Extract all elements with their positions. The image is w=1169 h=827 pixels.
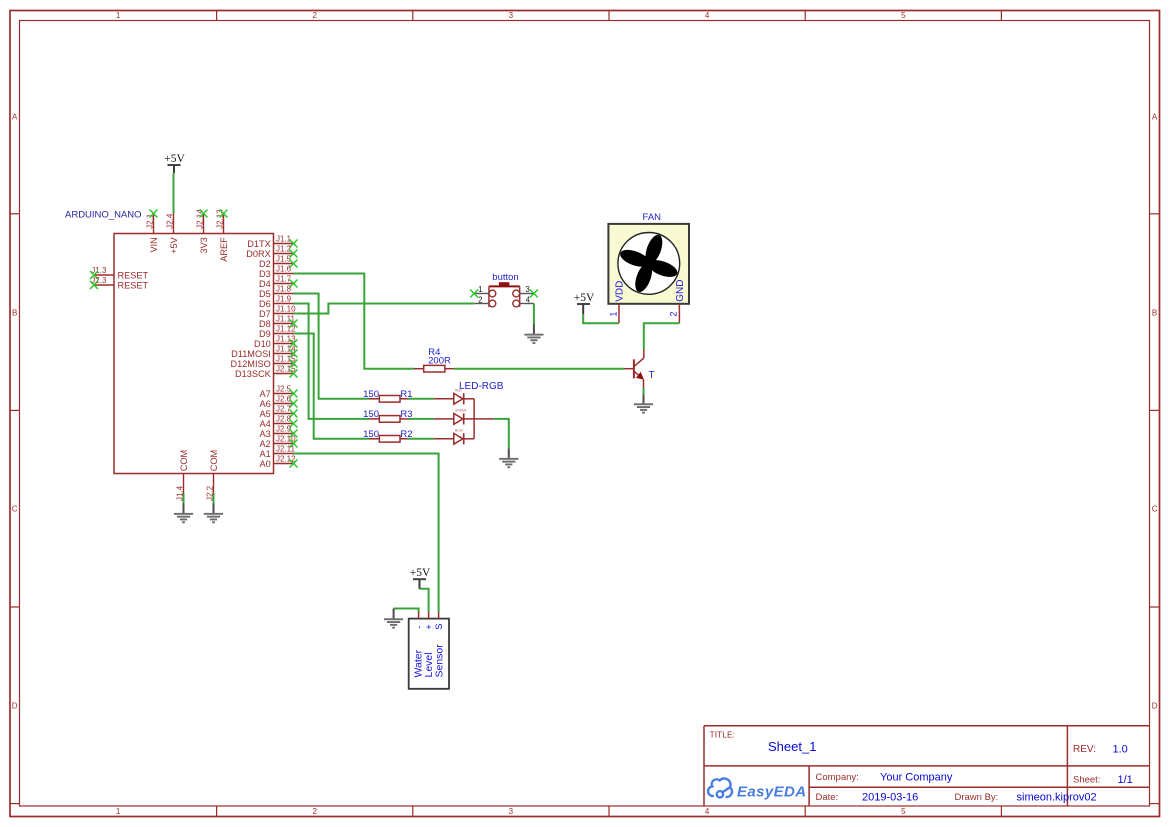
svg-text:GND: GND (675, 280, 686, 302)
svg-text:D6: D6 (259, 299, 271, 309)
svg-text:B: B (1152, 308, 1157, 317)
wire R2 to LED anode (408, 438, 434, 440)
button pin 4 (520, 295, 534, 304)
switch 'button' (pushbutton) (489, 272, 520, 307)
pin J2.10 A2 (right) (260, 435, 298, 449)
svg-text:1/1: 1/1 (1118, 774, 1133, 786)
wire J1.4 to ground (183, 494, 185, 514)
ground at J2.2 (204, 513, 223, 523)
wire A1 to sensor S (294, 454, 439, 613)
svg-text:J1.3: J1.3 (91, 266, 107, 275)
svg-text:J1.10: J1.10 (276, 305, 296, 314)
svg-text:A7: A7 (260, 389, 271, 399)
wire button pin 4 to ground (533, 304, 535, 335)
svg-text:D7: D7 (259, 309, 271, 319)
svg-text:LED-RGB: LED-RGB (459, 381, 504, 392)
pin J1.2 D0RX (right) (246, 245, 297, 259)
svg-text:J1.8: J1.8 (276, 285, 292, 294)
pin J2.13 AREF (top) (216, 209, 229, 262)
svg-text:+5V: +5V (164, 153, 185, 165)
pin J2.5 A7 (right) (260, 385, 298, 399)
svg-text:D0RX: D0RX (246, 249, 271, 259)
pin J1.12 D9 (right) (259, 325, 296, 339)
svg-text:D: D (1152, 701, 1158, 710)
svg-text:1: 1 (116, 11, 121, 20)
svg-text:J1.1: J1.1 (276, 235, 292, 244)
pin J2.7 A5 (right) (260, 405, 298, 419)
svg-text:4: 4 (526, 295, 531, 304)
pin J2.4 +5V (top) (166, 213, 179, 254)
title field Sheet_1 (710, 730, 817, 754)
svg-text:A0: A0 (260, 459, 271, 469)
pin J1.3 RESET (left) (90, 266, 149, 281)
pin J1.7 D4 (right) (259, 275, 297, 289)
svg-text:J1.12: J1.12 (276, 325, 296, 334)
svg-text:VIN: VIN (149, 237, 159, 252)
+5V power symbol (fan) (574, 292, 595, 314)
svg-text:BLUE: BLUE (455, 428, 463, 432)
svg-text:1: 1 (608, 312, 618, 317)
label ARDUINO_NANO (65, 210, 142, 221)
svg-text:A: A (12, 112, 18, 121)
svg-text:A6: A6 (260, 399, 271, 409)
pin J2.1 VIN (top) (146, 210, 159, 253)
resistor R3 150 (363, 409, 412, 422)
svg-text:3: 3 (525, 285, 530, 294)
svg-text:A3: A3 (260, 429, 271, 439)
wire +5V to fan VDD (583, 314, 619, 323)
pin J1.8 D5 (right) (259, 285, 293, 299)
svg-text:+5V: +5V (574, 292, 595, 304)
wire sensor - to ground (394, 609, 419, 619)
svg-text:COM: COM (209, 450, 219, 471)
pin J1.10 D7 (right) (259, 305, 296, 319)
wire +5V to sensor + (420, 589, 429, 612)
pin J1.5 D2 (right) (259, 255, 297, 269)
svg-text:2: 2 (312, 807, 317, 816)
svg-text:A2: A2 (260, 439, 271, 449)
svg-text:J1.6: J1.6 (276, 265, 292, 274)
ground at J1.4 (174, 513, 193, 523)
pin J2.6 A6 (right) (260, 395, 298, 409)
svg-text:2019-03-16: 2019-03-16 (862, 792, 918, 804)
svg-text:A5: A5 (260, 409, 271, 419)
resistor R4 200R (414, 347, 454, 372)
pin J1.14 D11MOSI (right) (231, 345, 297, 359)
pin J2.14 3V3 (top) (196, 209, 209, 254)
wire J2.2 to ground (213, 494, 215, 514)
svg-text:Sensor: Sensor (433, 644, 445, 678)
svg-text:RESET: RESET (118, 280, 149, 290)
svg-text:GREEN: GREEN (455, 409, 467, 413)
svg-text:+5V: +5V (410, 567, 431, 579)
svg-text:5: 5 (901, 11, 906, 20)
pin J2.3 RESET (left) (90, 276, 149, 291)
svg-text:J2.14: J2.14 (196, 209, 205, 229)
svg-text:A: A (1152, 112, 1158, 121)
svg-text:D3: D3 (259, 269, 271, 279)
pin J2.8 A4 (right) (260, 415, 298, 429)
svg-text:D5: D5 (259, 289, 271, 299)
svg-text:J1.7: J1.7 (276, 275, 292, 284)
svg-text:2: 2 (669, 312, 679, 317)
svg-text:J2.13: J2.13 (216, 209, 225, 229)
date / drawn-by fields (816, 792, 1097, 804)
fan pin 1 VDD (608, 304, 619, 323)
ground at button (524, 334, 543, 344)
svg-text:simeon.kiprov02: simeon.kiprov02 (1017, 792, 1097, 804)
svg-text:EasyEDA: EasyEDA (737, 783, 807, 800)
svg-text:Sheet:: Sheet: (1073, 774, 1100, 785)
pin J2.9 A3 (right) (260, 425, 298, 439)
svg-text:D1TX: D1TX (247, 239, 271, 249)
svg-text:Date:: Date: (816, 792, 839, 803)
wire fan GND to transistor collector (644, 323, 680, 349)
svg-text:3V3: 3V3 (199, 237, 209, 253)
sheet field 1/1 (1073, 774, 1133, 786)
ground at transistor (634, 403, 653, 413)
pin J2.15 D13SCK (right) (235, 365, 297, 379)
svg-text:D11MOSI: D11MOSI (231, 349, 271, 359)
wire R3 to LED anode (408, 418, 434, 420)
svg-text:B: B (12, 308, 17, 317)
pin J1.15 D12MISO (right) (230, 355, 297, 369)
pin J1.11 D8 (right) (259, 315, 297, 329)
svg-text:J2.7: J2.7 (276, 405, 292, 414)
svg-text:Your Company: Your Company (880, 772, 953, 784)
svg-text:J2.1: J2.1 (146, 213, 155, 229)
svg-text:3: 3 (509, 11, 514, 20)
svg-text:REV:: REV: (1073, 744, 1096, 755)
svg-text:+5V: +5V (169, 236, 179, 253)
fan pin 2 GND (669, 304, 680, 323)
ground at LED-RGB (499, 458, 518, 468)
resistor R2 150 (363, 429, 412, 442)
svg-text:VDD: VDD (615, 281, 626, 302)
svg-text:J1.9: J1.9 (276, 295, 292, 304)
wire R4 to transistor base (454, 368, 625, 370)
pin J2.12 A0 (right) (260, 455, 298, 469)
button pin 3 (520, 285, 538, 297)
component FAN (motor) (608, 212, 689, 304)
title block (704, 726, 1150, 806)
svg-text:1: 1 (478, 285, 483, 294)
EasyEDA logo (708, 778, 806, 800)
svg-text:Drawn By:: Drawn By: (955, 792, 999, 803)
svg-text:2: 2 (478, 295, 483, 304)
svg-text:200R: 200R (428, 356, 451, 367)
+5V power symbol (arduino) (164, 153, 185, 173)
svg-text:button: button (492, 272, 518, 283)
company field (816, 772, 953, 784)
svg-text:D13SCK: D13SCK (235, 369, 272, 379)
svg-text:TITLE:: TITLE: (710, 730, 736, 740)
ground at sensor (384, 618, 403, 628)
svg-text:C: C (12, 504, 18, 513)
svg-text:1: 1 (116, 807, 121, 816)
svg-text:J1.2: J1.2 (276, 245, 292, 254)
svg-text:J2.6: J2.6 (276, 395, 292, 404)
svg-text:3: 3 (509, 807, 514, 816)
svg-text:J2.8: J2.8 (276, 415, 292, 424)
svg-text:ARDUINO_NANO: ARDUINO_NANO (65, 210, 142, 221)
svg-text:RESET: RESET (118, 270, 149, 280)
resistor R1 150 (363, 389, 412, 402)
pin J1.6 D3 (right) (259, 265, 293, 279)
svg-text:J2.4: J2.4 (166, 213, 175, 229)
transistor T (NPN) (625, 349, 655, 388)
wire D9 to R2 (294, 334, 370, 439)
svg-text:FAN: FAN (643, 212, 662, 223)
pin J1.13 D10 (right) (254, 335, 298, 349)
rev field 1.0 (1073, 743, 1128, 755)
pin J1.4 COM (bottom) (176, 450, 189, 501)
wire LED-RGB cathode to ground (494, 419, 509, 458)
svg-text:D4: D4 (259, 279, 271, 289)
button pin 1 (470, 285, 489, 297)
pin J2.2 COM (bottom) (206, 450, 219, 501)
svg-text:D: D (12, 701, 18, 710)
svg-text:4: 4 (705, 11, 710, 20)
svg-text:Company:: Company: (816, 772, 859, 783)
svg-text:J1.5: J1.5 (276, 255, 292, 264)
svg-text:COM: COM (179, 450, 189, 471)
svg-text:2: 2 (312, 11, 317, 20)
svg-text:J2.5: J2.5 (276, 385, 292, 394)
component Water Level Sensor (409, 612, 449, 689)
svg-text:C: C (1152, 504, 1158, 513)
button pin 2 (474, 295, 489, 304)
svg-text:1.0: 1.0 (1113, 743, 1128, 755)
svg-text:A4: A4 (260, 419, 271, 429)
svg-text:J2.11: J2.11 (276, 445, 296, 454)
wire transistor emitter to ground (643, 388, 645, 404)
wire D6 to R3 (294, 304, 370, 419)
LED-RGB D1 (3 diodes) (434, 381, 504, 444)
wire +5V to pin J2.4 (173, 173, 175, 214)
wire D5 to R1 (294, 294, 370, 399)
svg-text:J2.3: J2.3 (91, 276, 107, 285)
svg-text:J2.9: J2.9 (276, 425, 292, 434)
wire D7 to button pin 2 (294, 304, 475, 314)
svg-text:S: S (434, 623, 445, 629)
svg-text:150: 150 (363, 429, 379, 440)
wire R1 to LED anode (408, 398, 434, 400)
svg-text:150: 150 (363, 389, 379, 400)
svg-text:D2: D2 (259, 259, 271, 269)
pin J2.11 A1 (right) (260, 445, 296, 459)
svg-text:A1: A1 (260, 449, 271, 459)
wire D3 to R4 (294, 274, 415, 369)
svg-text:D9: D9 (259, 329, 271, 339)
svg-text:150: 150 (363, 409, 379, 420)
svg-text:D10: D10 (254, 339, 271, 349)
svg-text:AREF: AREF (219, 237, 229, 262)
svg-text:5: 5 (901, 807, 906, 816)
svg-text:T: T (649, 370, 655, 381)
IC ARDUINO_NANO body (114, 234, 274, 474)
svg-text:Sheet_1: Sheet_1 (768, 739, 816, 754)
pin J1.1 D1TX (right) (247, 235, 297, 249)
svg-text:D8: D8 (259, 319, 271, 329)
svg-text:D12MISO: D12MISO (230, 359, 270, 369)
+5V power symbol (sensor) (410, 567, 431, 589)
pin J1.9 D6 (right) (259, 295, 293, 309)
svg-text:4: 4 (705, 807, 710, 816)
